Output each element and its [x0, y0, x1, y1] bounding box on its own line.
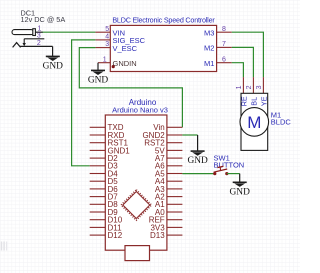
- motor value BLDC: [271, 118, 292, 127]
- Arduino pin name GND2: [142, 131, 165, 140]
- Arduino pin name REF: [149, 216, 165, 225]
- ESC pin number 7: [222, 41, 226, 48]
- ESC pin name GNDIN: [113, 59, 137, 68]
- Arduino USB connector rectangle: [125, 246, 150, 261]
- wire DC1 pin2 to ground: [52, 46, 54, 56]
- svg-text:1: 1: [236, 85, 243, 89]
- motor pin 1 stub: [242, 77, 244, 93]
- edge artifact marks: [2, 242, 7, 251]
- ESC pin 5 stub (VIN): [95, 31, 110, 33]
- ESC pin 7 stub (M2): [217, 46, 232, 48]
- wire M3 net ESC pin8 to motor pin3: [232, 32, 264, 77]
- ESC pin 1 stub (GNDIN): [98, 62, 110, 64]
- motor M1 body rectangle: [241, 93, 268, 150]
- Arduino pin name D13: [150, 231, 165, 240]
- motor pin 3 stub: [262, 77, 264, 93]
- Arduino pin name A7: [155, 154, 165, 163]
- Arduino pin name D5: [108, 177, 119, 186]
- Arduino right pin stub A4: [167, 180, 183, 182]
- Arduino pin name RST2: [144, 139, 165, 148]
- svg-text:M2: M2: [204, 44, 214, 53]
- Arduino pin name D8: [108, 200, 119, 209]
- wire SIG_ESC net to Arduino D3: [72, 40, 96, 166]
- motor winding label YE: [259, 96, 268, 106]
- motor pin number 1: [236, 85, 243, 89]
- ESC pin name SIG_ESC: [113, 36, 146, 45]
- Arduino pin name A0: [155, 208, 165, 217]
- svg-text:D13: D13: [150, 231, 165, 240]
- svg-text:12v DC @ 5A: 12v DC @ 5A: [21, 15, 66, 24]
- ground GND under DC1: [43, 56, 64, 71]
- wire GND2 drop: [197, 135, 199, 151]
- Arduino pin name D7: [108, 193, 119, 202]
- ESC pin number 4: [105, 34, 109, 41]
- Arduino right pin stub A2: [167, 196, 183, 198]
- Arduino pin name 5V: [155, 146, 165, 155]
- svg-text:BLDC: BLDC: [271, 118, 292, 127]
- ESC pin name M2: [204, 44, 214, 53]
- wire SW1 ground drop: [239, 174, 241, 183]
- ground GND under SW1: [230, 182, 251, 197]
- ground GND under ESC GNDIN: [88, 70, 109, 85]
- IC body BLDC ESC box: [110, 25, 216, 71]
- svg-text:D12: D12: [108, 231, 123, 240]
- ESC pin name M1: [204, 59, 214, 68]
- connector DC1 barrel jack symbol: [12, 29, 53, 48]
- Arduino right pin stub RST2: [167, 142, 183, 144]
- Arduino pin name D6: [108, 185, 119, 194]
- wire ESC GNDIN to ground: [97, 63, 99, 70]
- svg-text:GND: GND: [230, 187, 251, 197]
- ESC pin name VIN: [113, 28, 126, 37]
- motor winding label RE: [239, 96, 248, 106]
- switch SW1 value BUTTON: [214, 160, 245, 169]
- svg-text:GND: GND: [88, 75, 109, 85]
- svg-text:5: 5: [105, 26, 109, 33]
- Arduino left pin stub D4: [90, 173, 106, 175]
- Arduino right pin stub D13: [167, 234, 183, 236]
- Arduino left pin stub D10: [90, 219, 106, 221]
- Arduino pin name D2: [108, 154, 119, 163]
- ESC pin name M3: [204, 28, 214, 37]
- Arduino title: [129, 98, 157, 107]
- svg-text:M: M: [247, 113, 261, 132]
- Arduino left pin stub RXD: [90, 134, 106, 136]
- svg-text:3: 3: [256, 85, 263, 89]
- svg-text:2: 2: [37, 40, 41, 47]
- Arduino right pin stub A7: [167, 157, 183, 159]
- connector DC1 reference label: [21, 8, 36, 17]
- ESC pin number 6: [222, 56, 226, 63]
- Arduino pin name A5: [155, 169, 165, 178]
- Arduino pin name A1: [155, 200, 165, 209]
- Arduino left pin stub D7: [90, 196, 106, 198]
- motor reference M1: [271, 110, 281, 119]
- ESC pin 6 stub (M1): [217, 62, 232, 64]
- switch SW1 reference: [214, 154, 230, 163]
- svg-text:BLDC Electronic Speed Controll: BLDC Electronic Speed Controller: [112, 15, 215, 24]
- svg-text:RE: RE: [239, 96, 248, 106]
- ESC pin name V_ESC: [113, 44, 138, 53]
- Arduino pin name GND1: [108, 146, 131, 155]
- Arduino right pin stub 5V: [167, 149, 183, 151]
- Arduino left pin stub RST1: [90, 142, 106, 144]
- Arduino MCU chip icon (diamond): [121, 190, 152, 221]
- ground GND at Arduino GND2: [187, 151, 208, 166]
- Arduino left pin stub D11: [90, 226, 106, 228]
- svg-text:1: 1: [103, 56, 107, 63]
- ESC pin number 5: [105, 26, 109, 33]
- wire Arduino A5 to SW1: [182, 173, 214, 175]
- Arduino left pin stub D8: [90, 203, 106, 205]
- DC1 pin number 1: [38, 26, 42, 33]
- Arduino pin name D11: [108, 223, 123, 232]
- ESC pin 4 stub (SIG_ESC): [95, 39, 110, 41]
- Arduino pin name D10: [108, 216, 123, 225]
- Arduino pin name Vin: [153, 123, 164, 132]
- Arduino subtitle Arduino Nano v3: [112, 106, 168, 115]
- Arduino pin name A2: [155, 193, 165, 202]
- svg-text:2: 2: [246, 85, 253, 89]
- Arduino right pin stub A3: [167, 188, 183, 190]
- motor circle: [240, 108, 269, 137]
- motor pin number 3: [256, 85, 263, 89]
- Arduino pin name A3: [155, 185, 165, 194]
- svg-text:GND: GND: [187, 156, 208, 166]
- Arduino right pin stub 3V3: [167, 226, 183, 228]
- wire Arduino GND2 to ground: [182, 134, 197, 136]
- ESC pin number 3: [105, 41, 109, 48]
- ESC pin number 8: [222, 26, 226, 33]
- connector DC1 value label 12v DC @ 5A: [21, 15, 66, 24]
- svg-text:7: 7: [222, 41, 226, 48]
- wire M2 net ESC pin7 to motor pin2: [232, 47, 254, 77]
- wire +12V DC1 pin1 to ESC VIN: [43, 31, 96, 33]
- svg-text:M1: M1: [204, 59, 214, 68]
- Arduino pin name RST1: [108, 139, 129, 148]
- Arduino right pin stub A1: [167, 203, 183, 205]
- ESC pin number 1: [103, 56, 107, 63]
- DC1 pin number 3: [37, 32, 41, 39]
- svg-text:Arduino Nano v3: Arduino Nano v3: [112, 106, 168, 115]
- svg-text:3: 3: [105, 41, 109, 48]
- Arduino pin name 3V3: [150, 223, 165, 232]
- IC body Arduino Nano v3 box: [105, 115, 167, 250]
- Arduino pin name D12: [108, 231, 123, 240]
- Arduino pin name A6: [155, 162, 165, 171]
- Arduino pin name D4: [108, 169, 119, 178]
- Arduino pin name RXD: [108, 131, 125, 140]
- wire SW1 to ground: [227, 173, 240, 175]
- svg-text:YE: YE: [259, 96, 268, 106]
- svg-text:V_ESC: V_ESC: [113, 44, 138, 53]
- Arduino left pin stub D5: [90, 180, 106, 182]
- Arduino right pin stub GND2: [167, 134, 183, 136]
- Arduino pin name D9: [108, 208, 119, 217]
- svg-text:BL: BL: [249, 97, 258, 106]
- Arduino right pin stub Vin: [167, 126, 183, 128]
- Arduino left pin stub GND1: [90, 149, 106, 151]
- Arduino right pin stub A5: [167, 173, 183, 175]
- svg-text:6: 6: [222, 56, 226, 63]
- wire V_ESC net to Arduino Vin: [79, 48, 182, 128]
- switch SW1 pushbutton symbol: [213, 166, 228, 175]
- Arduino left pin stub D12: [90, 234, 106, 236]
- svg-text:GND: GND: [43, 61, 64, 71]
- ESC anchor dot: [112, 65, 115, 68]
- Arduino right pin stub A6: [167, 165, 183, 167]
- DC1 pin number 2: [37, 40, 41, 47]
- ESC title BLDC Electronic Speed Controller: [112, 15, 215, 24]
- motor pin 2 stub: [252, 77, 254, 93]
- svg-text:8: 8: [222, 26, 226, 33]
- svg-text:3: 3: [37, 32, 41, 39]
- ESC pin 8 stub (M3): [217, 31, 232, 33]
- Arduino right pin stub A0: [167, 211, 183, 213]
- motor pin number 2: [246, 85, 253, 89]
- motor winding label BL: [249, 97, 258, 106]
- ESC pin 3 stub (V_ESC): [95, 47, 110, 49]
- Arduino left pin stub D9: [90, 211, 106, 213]
- Arduino right pin stub REF: [167, 219, 183, 221]
- Arduino pin name A4: [155, 177, 165, 186]
- svg-text:4: 4: [105, 34, 109, 41]
- Arduino left pin stub D3: [90, 165, 106, 167]
- svg-text:M3: M3: [204, 28, 214, 37]
- Arduino pin name D3: [108, 162, 119, 171]
- svg-text:GNDIN: GNDIN: [113, 59, 137, 68]
- Arduino left pin stub TXD: [90, 126, 106, 128]
- Arduino left pin stub D2: [90, 157, 106, 159]
- wire M1 net ESC pin6 to motor pin1: [232, 63, 244, 77]
- motor letter M: [247, 113, 261, 132]
- Arduino left pin stub D6: [90, 188, 106, 190]
- Arduino pin name TXD: [108, 123, 124, 132]
